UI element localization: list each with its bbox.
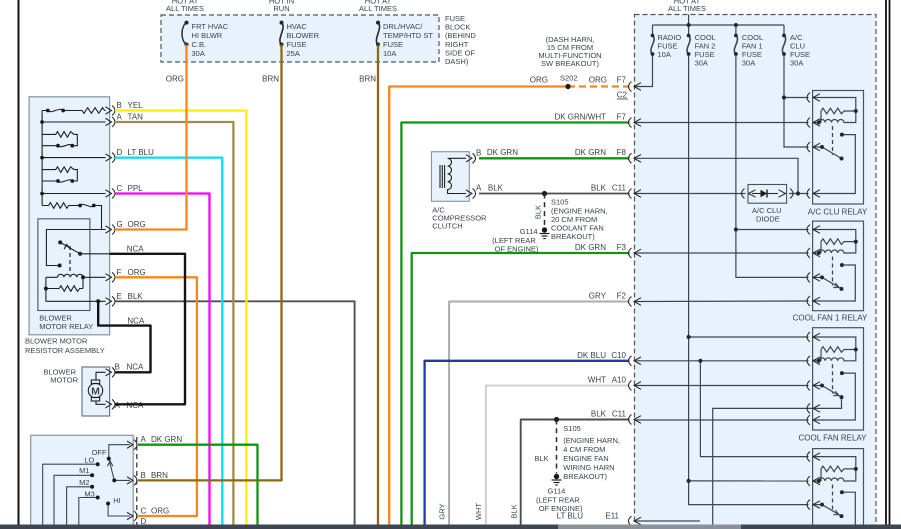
svg-text:C: C <box>117 184 123 193</box>
svg-text:COOL FAN 1 RELAY: COOL FAN 1 RELAY <box>793 314 868 323</box>
node HOT AT ALL TIMES (left fuse 1) <box>166 0 204 13</box>
wire fuse2 junction to relay4 coil <box>689 480 809 482</box>
svg-text:4 CM FROM: 4 CM FROM <box>563 445 605 454</box>
svg-text:DASH): DASH) <box>445 57 469 66</box>
wire A10 WHT to COOL FAN relay common <box>635 385 809 387</box>
svg-text:MOTOR: MOTOR <box>50 376 78 385</box>
relay U2 COOL FAN 1 RELAY <box>793 221 868 322</box>
svg-text:LT BLU: LT BLU <box>128 148 155 157</box>
svg-text:BLK: BLK <box>128 292 144 301</box>
connector F8 <box>629 153 642 163</box>
inductor relay2 coil <box>819 242 856 253</box>
wire relay3 switch common <box>813 385 822 387</box>
svg-text:BRN: BRN <box>151 471 168 480</box>
label G114 (LEFT REAR OF ENGINE) upper <box>492 227 539 254</box>
actuator link blower relay (dashed) <box>69 246 71 273</box>
switch arm (wiper) <box>109 459 130 481</box>
pin labels B YEL / A TAN / D LT BLU / C PPL / G ORG / F ORG / E BLK <box>117 101 155 301</box>
wire M3 contact <box>79 498 98 525</box>
motor M1 BLOWER MOTOR <box>43 363 144 417</box>
wire radio fuse drop to F7/C2 <box>652 25 654 36</box>
svg-text:WHT: WHT <box>588 376 606 385</box>
svg-text:F3: F3 <box>617 243 627 252</box>
svg-text:C.B.: C.B. <box>192 40 207 49</box>
resistor relay1 coil-suppression resistor <box>821 108 856 114</box>
wire DK BLU to C10 <box>425 361 630 525</box>
fuse value label COOL FAN 2 FUSE 30A <box>695 33 716 68</box>
wire ORG dashed S202 to C2 connector <box>568 85 630 87</box>
wire relay3 fixed contact to pin5 <box>813 373 856 420</box>
circuit breaker FRT HVAC HI BLWR C.B. 30A <box>182 23 187 45</box>
svg-text:F7: F7 <box>617 113 627 122</box>
wire M2 contact <box>67 487 93 525</box>
label S105 (ENGINE HARN, 20 CM FROM COOLANT FAN BREAKOUT) <box>551 198 608 242</box>
splice S105 junction dot (4 cm) <box>554 417 559 422</box>
connector F3 <box>629 248 642 258</box>
svg-text:A: A <box>117 113 123 122</box>
resistor R1 (blower resistor, row B) <box>63 108 105 114</box>
svg-text:A: A <box>476 184 482 193</box>
svg-text:RESISTOR ASSEMBLY: RESISTOR ASSEMBLY <box>25 346 105 355</box>
svg-text:DIODE: DIODE <box>756 215 780 224</box>
label FUSE BLOCK (BEHIND RIGHT SIDE OF DASH) <box>445 14 476 66</box>
relay U1 A/C CLU RELAY <box>807 91 868 217</box>
fuse COOL FAN 1 FUSE 30A symbol <box>734 36 737 55</box>
connector F7 <box>629 118 642 128</box>
thermal limiter row B <box>42 109 63 111</box>
svg-text:HVAC: HVAC <box>287 22 308 31</box>
node HOT IN RUN (fuse 2) <box>269 0 294 13</box>
wire WHT A10 down <box>486 386 630 525</box>
svg-text:RUN: RUN <box>273 4 289 13</box>
thermal limiter row 4 <box>80 204 101 229</box>
label G114 (LEFT REAR OF ENGINE) lower <box>536 487 583 514</box>
connector C10 <box>629 356 642 366</box>
wire ORG fuse1 to resistor pin G <box>115 45 187 230</box>
wire PPL (resistor C to harness) <box>115 194 210 525</box>
svg-text:B: B <box>476 149 481 158</box>
pin connectors resistor assembly (B A D C G F E) <box>106 106 116 307</box>
svg-text:TAN: TAN <box>128 113 144 122</box>
wire BLK dashed drop to G114 (lower) <box>556 420 558 474</box>
svg-text:G: G <box>117 220 123 229</box>
switch arm relay1 <box>822 147 842 159</box>
svg-text:BREAKOUT): BREAKOUT) <box>563 472 607 481</box>
wire F3 DK GRN to COOL FAN 1 relay coil <box>635 252 809 254</box>
relay U3 COOL FAN RELAY <box>798 328 867 443</box>
arrowhead on blower relay arm <box>64 244 70 249</box>
resistor R2 (row 2) <box>42 132 77 146</box>
ground G114 (left rear of engine, lower) <box>552 474 562 485</box>
wire diode to A/C CLU relay pin <box>789 193 809 195</box>
label BLOWER MOTOR RESISTOR ASSEMBLY <box>25 337 105 356</box>
wire relay1 switch common <box>813 146 822 148</box>
wire COOL FAN relay output down (fan feed) <box>713 408 813 524</box>
wire cool fan 2 fuse vertical <box>688 25 690 36</box>
actuator link relay3 (dashed) <box>832 364 834 393</box>
svg-text:YEL: YEL <box>128 101 144 110</box>
page left border line <box>18 0 20 525</box>
wire row D <box>42 157 105 159</box>
svg-text:DK GRN: DK GRN <box>151 435 182 444</box>
svg-text:A: A <box>141 435 147 444</box>
svg-text:A10: A10 <box>612 376 627 385</box>
wire DK GRN to F3 <box>412 253 630 525</box>
svg-text:LO: LO <box>84 456 94 465</box>
wire bus feeding four fuses <box>653 24 785 26</box>
svg-text:F8: F8 <box>617 148 627 157</box>
wire F8 DK GRN drop to diode junction <box>635 158 798 193</box>
svg-text:DK BLU: DK BLU <box>577 351 606 360</box>
svg-text:HI BLWR: HI BLWR <box>192 31 223 40</box>
junction dots in right fuse block <box>651 23 801 483</box>
CONNECTOR TERMINALS at right fuse block edge <box>629 82 642 527</box>
horizontal scrollbar track <box>0 525 901 529</box>
wire relay3 arm terminal to pin4 <box>813 397 842 408</box>
wire DK GRN switch pin A down <box>138 445 258 525</box>
fuse value label A/C CLU FUSE 30A <box>790 33 810 68</box>
svg-text:GRY: GRY <box>589 292 607 301</box>
switch arm blower relay <box>60 242 80 253</box>
svg-text:30A: 30A <box>695 59 708 68</box>
svg-text:30A: 30A <box>192 49 205 58</box>
wire feed from HOT AT ALL TIMES <box>688 15 690 26</box>
svg-text:25A: 25A <box>287 49 300 58</box>
connector C11 (lower) <box>629 415 642 425</box>
inductor blower relay coil <box>46 274 106 277</box>
svg-text:A/C CLU RELAY: A/C CLU RELAY <box>808 208 868 217</box>
inductor relay3 coil <box>819 350 856 361</box>
svg-text:B: B <box>141 471 146 480</box>
wire relay4 switch common <box>813 504 822 506</box>
svg-text:BREAKOUT): BREAKOUT) <box>551 232 595 241</box>
wire row A <box>42 121 105 123</box>
svg-text:E: E <box>117 292 122 301</box>
inductor relay1 coil <box>819 111 856 123</box>
wire ORG to F7/C2 (solid part, S202) <box>389 87 568 525</box>
svg-text:S105: S105 <box>551 198 569 207</box>
wire relay1 fixed contact to output pin <box>813 135 856 194</box>
wire LO contact <box>43 464 98 524</box>
thermal limiter row 3 <box>42 180 72 182</box>
connector C11 <box>629 189 642 199</box>
svg-text:ALL TIMES: ALL TIMES <box>166 4 204 13</box>
fuse COOL FAN 2 FUSE 30A symbol <box>687 36 690 55</box>
wire row E (ground side) <box>46 300 106 302</box>
wire relay3 pin1 to resistor <box>813 337 856 350</box>
horizontal scrollbar thumb <box>558 525 741 529</box>
svg-text:ORG: ORG <box>589 76 607 85</box>
svg-text:C: C <box>141 506 147 515</box>
svg-text:DRL/HVAC/: DRL/HVAC/ <box>383 22 423 31</box>
relay U4 (second cool fan relay, clipped) <box>807 449 864 527</box>
switch arm relay2 <box>822 277 842 289</box>
label A/C COMPRESSOR CLUTCH <box>432 206 487 231</box>
page right double border line <box>885 0 887 525</box>
fuse value label RADIO FUSE 10A <box>658 33 682 59</box>
wire DK GRN/WHT to F7 <box>401 123 629 525</box>
svg-text:DK GRN: DK GRN <box>487 148 518 157</box>
wire F2 GRY to COOL FAN 1 relay output <box>635 300 809 303</box>
wire E11 LT BLU stub <box>635 520 700 522</box>
right fuse block dashed box (underhood) <box>635 15 877 527</box>
switch S1 BLOWER SWITCH <box>31 435 183 526</box>
wire relay1 pin1 to resistor <box>813 98 856 112</box>
svg-text:30A: 30A <box>742 59 755 68</box>
svg-text:BRN: BRN <box>262 75 279 84</box>
switch arm relay4 <box>822 505 842 516</box>
resistor relay3 <box>821 347 856 353</box>
svg-text:GRY: GRY <box>438 503 447 519</box>
svg-text:ORG: ORG <box>530 76 548 85</box>
svg-text:BLK: BLK <box>488 183 504 192</box>
resistor relay4 <box>821 466 856 472</box>
splice S105 junction dot (20 cm) <box>542 191 547 196</box>
wire BRN fuse3 down <box>377 45 379 525</box>
svg-text:LT BLU: LT BLU <box>557 512 584 521</box>
inductor L1 A/C COMPRESSOR CLUTCH coil <box>432 149 488 231</box>
label A/C CLU DIODE <box>752 206 782 224</box>
wire BLK compressor A to C11 <box>479 193 630 195</box>
label BLOWER MOTOR RELAY <box>39 314 93 332</box>
connector F2 <box>629 297 642 307</box>
fuse RADIO FUSE 10A symbol <box>651 36 654 55</box>
wire labels at connectors <box>487 76 628 521</box>
wire C10 DK BLU to COOL FAN relay coil <box>635 360 809 362</box>
label BLOWER MOTOR <box>43 368 78 385</box>
svg-text:S202: S202 <box>560 74 578 83</box>
inductor relay4 coil <box>819 469 856 481</box>
svg-text:DK GRN/WHT: DK GRN/WHT <box>554 113 606 122</box>
wire TAN (resistor A to harness) <box>115 122 233 525</box>
resistor R3 (row 3) <box>42 167 77 181</box>
wire C11 BLK to COOL FAN relay pin5 <box>635 419 809 421</box>
svg-text:BRN: BRN <box>359 75 376 84</box>
wire fuse4 junction to A/C CLU relay pin1 <box>784 97 809 99</box>
svg-text:BLOWER MOTOR: BLOWER MOTOR <box>25 337 88 346</box>
wire relay4 pin2 <box>813 480 819 482</box>
wire BLK dashed drop to G114 <box>544 194 546 229</box>
svg-text:S105: S105 <box>563 424 581 433</box>
pin labels B NCA / A NCA <box>115 363 145 410</box>
connector F7/C2 <box>629 82 642 92</box>
svg-text:WHT: WHT <box>474 503 483 520</box>
svg-text:10A: 10A <box>383 49 396 58</box>
svg-text:NCA: NCA <box>127 244 145 253</box>
svg-text:D: D <box>117 148 123 157</box>
svg-text:MOTOR RELAY: MOTOR RELAY <box>39 322 93 331</box>
wire GRY F2 down <box>449 302 629 525</box>
splice S202 junction dot <box>565 84 570 89</box>
svg-text:M: M <box>91 386 100 398</box>
wire NCA ground loop to motor pin B (thick black) <box>98 301 150 372</box>
svg-text:DK GRN: DK GRN <box>575 148 606 157</box>
svg-text:DK GRN: DK GRN <box>575 243 606 252</box>
wire relay2 switch common <box>813 276 822 278</box>
RIGHT FUSE BLOCK INTERNALS <box>635 15 813 525</box>
wire HI contact to pin C <box>108 504 130 517</box>
node HOT AT ALL TIMES (right fuse block) <box>668 0 706 13</box>
wire relay1 pin2 <box>813 122 819 124</box>
svg-text:30A: 30A <box>790 59 803 68</box>
wire junction drop to relay4 pin1 <box>700 361 808 457</box>
svg-text:BLK: BLK <box>534 205 543 219</box>
svg-text:TEMP/HTD ST: TEMP/HTD ST <box>383 31 433 40</box>
svg-text:ORG: ORG <box>151 506 169 515</box>
svg-text:FUSE: FUSE <box>287 40 307 49</box>
svg-text:ENGINE FAN: ENGINE FAN <box>563 454 608 463</box>
svg-text:BLK: BLK <box>591 410 607 419</box>
svg-text:CLUTCH: CLUTCH <box>432 222 462 231</box>
pin connectors relay3 <box>807 332 820 425</box>
pin labels A DK GRN / B BRN / C ORG / D <box>141 435 183 526</box>
svg-text:C2: C2 <box>617 91 628 100</box>
fuse value label COOL FAN 1 FUSE 30A <box>742 33 763 68</box>
svg-text:(ENGINE HARN,: (ENGINE HARN, <box>563 436 620 445</box>
connector boundary dashed line <box>136 437 138 525</box>
resistor blower relay suppression <box>46 286 83 292</box>
wire LT BLU (resistor D to harness) <box>115 158 222 525</box>
pin connectors switch A / B / C <box>127 440 137 521</box>
diode A/C CLU DIODE <box>742 185 794 204</box>
svg-text:ALL TIMES: ALL TIMES <box>359 4 397 13</box>
wire BLK C11 (cooling fan ground) down <box>521 420 630 525</box>
label (DASH HARN, 15 CM FROM MULTI-FUNCTION SW BREAKOUT) <box>538 35 601 68</box>
svg-text:M1: M1 <box>79 466 89 475</box>
connector E11 <box>629 516 642 526</box>
fuse DRL/HVAC/TEMP/HTD ST FUSE 10A <box>376 23 379 45</box>
svg-text:SW BREAKOUT): SW BREAKOUT) <box>541 59 599 68</box>
fuse HVAC BLOWER FUSE 25A <box>280 23 283 45</box>
svg-text:WIRING HARN: WIRING HARN <box>563 463 614 472</box>
svg-text:M2: M2 <box>79 478 89 487</box>
svg-text:BLOWER: BLOWER <box>287 31 320 40</box>
wire pin A to OFF contact <box>109 445 130 459</box>
svg-text:OF ENGINE): OF ENGINE) <box>495 245 539 254</box>
wire relay2 fixed contact to output pin <box>813 265 856 301</box>
COLORED WIRES <box>98 45 629 525</box>
wire BLK resistor pin E down <box>115 301 355 524</box>
svg-text:FUSE: FUSE <box>383 40 403 49</box>
svg-text:NCA: NCA <box>127 363 145 372</box>
resistor relay2 <box>821 239 856 245</box>
label S105 (ENGINE HARN, 4 CM FROM ENGINE FAN WIRING HARN BREAKOUT) <box>563 424 620 481</box>
svg-text:COOL FAN RELAY: COOL FAN RELAY <box>798 434 867 443</box>
actuator link relay1 (dashed) <box>832 126 834 155</box>
svg-text:C11: C11 <box>612 410 627 419</box>
wire BRN fuse2 to switch pin B <box>138 45 282 481</box>
resistor R4 (row 4) <box>42 203 80 209</box>
wire relay2 pin2 <box>813 252 819 254</box>
svg-text:F2: F2 <box>617 292 627 301</box>
BLOWER MOTOR RESISTOR ASSEMBLY <box>25 97 154 355</box>
svg-text:E11: E11 <box>605 512 619 521</box>
wire left rail <box>41 111 43 206</box>
svg-text:ORG: ORG <box>128 268 146 277</box>
connector A10 <box>629 381 642 391</box>
svg-text:G114: G114 <box>548 487 566 496</box>
wire row C <box>42 193 105 195</box>
ground G114 (left rear of engine, upper) <box>540 228 550 239</box>
node HOT AT ALL TIMES (fuse 3) <box>359 0 397 13</box>
svg-text:ORG: ORG <box>128 220 146 229</box>
svg-text:ORG: ORG <box>166 75 184 84</box>
wire fuse3 junction to COOL FAN 1 relay pin1 <box>736 229 809 231</box>
wire relay4 fixed contact (clipped) <box>842 492 855 524</box>
svg-text:F: F <box>117 268 122 277</box>
wire DK GRN compressor B to F8 <box>479 157 630 159</box>
svg-text:B: B <box>117 101 122 110</box>
svg-text:BLK: BLK <box>591 183 607 192</box>
wire a/c clu fuse vertical <box>783 25 785 36</box>
svg-text:ALL TIMES: ALL TIMES <box>668 4 706 13</box>
wire YEL (resistor B to harness) <box>115 111 246 525</box>
relay K1 BLOWER MOTOR RELAY <box>38 219 90 311</box>
actuator link relay2 (dashed) <box>832 257 834 286</box>
pin connectors compressor clutch B / A <box>466 153 476 198</box>
fuse A/C CLU FUSE 30A symbol <box>782 36 785 55</box>
pin connectors relay2 <box>807 225 820 307</box>
pin connectors relay4 <box>807 452 820 510</box>
svg-text:10A: 10A <box>658 50 671 59</box>
wire fuse2 junction to COOL FAN relay pin1 <box>689 336 809 338</box>
thermal limiter row 2 <box>42 145 72 147</box>
actuator link relay4 (dashed) <box>832 485 834 513</box>
wire relay3 pin2 <box>813 360 819 362</box>
svg-text:BLK: BLK <box>510 504 519 518</box>
svg-text:HI: HI <box>113 496 121 505</box>
svg-text:F7: F7 <box>617 76 627 85</box>
svg-text:BLK: BLK <box>535 454 549 463</box>
arrowhead on wiper <box>107 461 113 466</box>
svg-text:FRT HVAC: FRT HVAC <box>192 22 229 31</box>
svg-text:M3: M3 <box>84 489 94 498</box>
switch arm relay3 <box>822 386 842 398</box>
svg-text:G114: G114 <box>520 227 538 236</box>
wire M1 contact <box>54 475 92 524</box>
svg-text:C11: C11 <box>612 183 627 192</box>
wire ORG resistor pin F to switch pin C <box>115 277 197 516</box>
switch position labels OFF LO M1 M2 M3 HI <box>79 448 107 498</box>
wire cool fan 1 fuse vertical <box>735 25 737 36</box>
underline for C2 <box>617 98 628 100</box>
wire NO contact to assembly edge <box>80 253 110 255</box>
wire NCA blower relay to motor pin A (thick black) <box>110 254 185 404</box>
pin connectors blower motor B / A <box>106 367 116 409</box>
wire relay2 pin1 to resistor <box>813 230 856 242</box>
pin connectors relay1 <box>807 93 820 199</box>
svg-text:C10: C10 <box>611 351 626 360</box>
wire relay4 pin1 to resistor <box>813 457 856 469</box>
svg-text:PPL: PPL <box>128 184 144 193</box>
wire F7 DK GRN/WHT to A/C CLU relay coil <box>635 122 809 124</box>
wire G row to NC contact <box>46 230 105 266</box>
svg-text:B: B <box>115 363 120 372</box>
wire C11 BLK to diode <box>635 193 746 195</box>
svg-text:NCA: NCA <box>127 316 145 325</box>
fuse block (behind right side of dash) dashed box <box>161 15 439 62</box>
